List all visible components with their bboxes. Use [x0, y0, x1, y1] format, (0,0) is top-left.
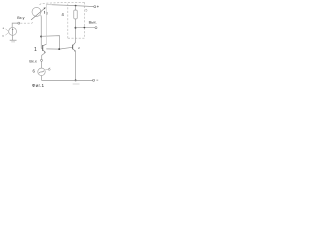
- svg-text:Фиг.1: Фиг.1: [32, 83, 45, 88]
- output line: [76, 27, 96, 29]
- wire: Вх.у lead from source G1 up and right to terminal: [12, 23, 18, 28]
- wire: resistor bottom to Q2 collector: [75, 19, 77, 42]
- wire: G1 bottom to ground: [12, 35, 14, 40]
- wire: Q1 emitter line to Q2 base (node B): [46, 47, 72, 49]
- node A dot: [40, 36, 42, 38]
- small arc mark right of element 3: [43, 11, 46, 14]
- junction dot at element 5 tap: [84, 27, 86, 29]
- faint scan smudge: [73, 83, 80, 85]
- terminal +: [94, 6, 96, 8]
- wire: terminal to source G2: [41, 61, 43, 68]
- wire: Q1 emitter bend down to Вх.х terminal: [42, 53, 46, 60]
- variable element 3 (circle with diagonal arrow): [32, 7, 41, 16]
- ground: [10, 39, 17, 41]
- resistor R (label 4): [75, 6, 77, 10]
- wire: Q2 emitter down to bottom rail: [75, 52, 77, 81]
- dashed link vertical at x=84.4 down across output line: [83, 2, 85, 38]
- dashed mechanical link: Вх.у terminal to arrow of element 3: [20, 22, 33, 23]
- current source G1 (circle with up arrow): [9, 28, 17, 36]
- junction dot resistor/output: [75, 27, 77, 29]
- terminal −: [93, 79, 95, 81]
- svg-text:5: 5: [85, 9, 87, 13]
- AC source G2 (element 6, circle with sine): [38, 68, 45, 75]
- svg-text:Вх.у: Вх.у: [17, 16, 24, 20]
- junction dot bottom rail: [75, 79, 77, 81]
- wire: Q1 collector riser (faint): [45, 5, 47, 45]
- wire: node A branch right and down to node B: [41, 36, 59, 49]
- junction on rail at resistor: [75, 5, 77, 7]
- transistor Q1 (label 1): [41, 45, 44, 51]
- leader dash and label right of element 6: [45, 68, 48, 70]
- bottom rail: [42, 79, 93, 81]
- wire: element 3 to node A and base of Q1: [40, 15, 43, 48]
- terminal Вых: [95, 27, 97, 29]
- top rail: [46, 4, 52, 6]
- dashed link horizontal at y=38.2: [68, 37, 85, 39]
- svg-text:1: 1: [34, 47, 37, 53]
- dashed mechanical link: element 3 arrow to top, across and down to element 5 tap: [40, 2, 85, 5]
- terminal Вх.у: [18, 22, 20, 24]
- svg-text:Вых.: Вых.: [89, 21, 97, 25]
- label −: [96, 79, 98, 81]
- svg-text:3: 3: [46, 11, 48, 15]
- transistor Q2 (label 2): [71, 45, 74, 50]
- dashed link vertical at x=67.8: [67, 3, 69, 39]
- label +: [97, 6, 99, 8]
- svg-text:Вх.х: Вх.х: [29, 60, 36, 64]
- node B dot: [58, 48, 60, 50]
- wire: G2 bottom to bottom rail: [41, 76, 43, 81]
- terminal Вх.х: [41, 59, 43, 61]
